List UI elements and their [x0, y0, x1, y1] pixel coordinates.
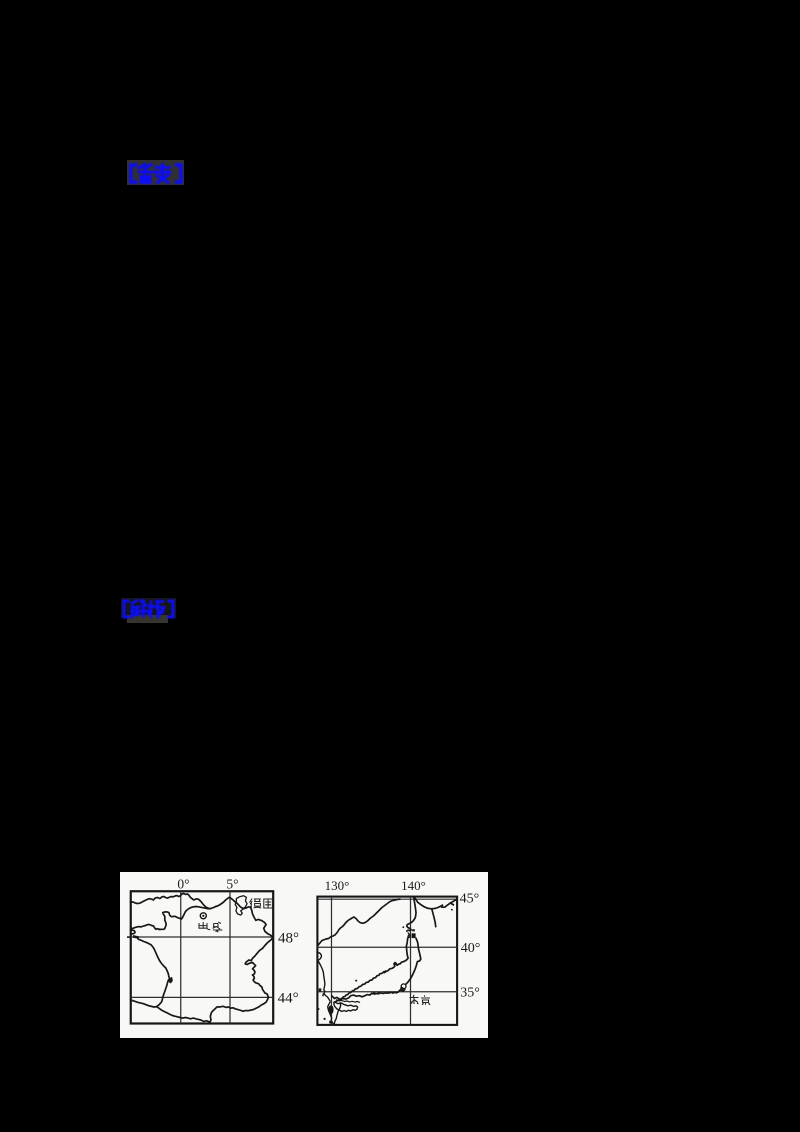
right labels	[325, 878, 481, 1000]
frame	[317, 897, 457, 1025]
analysis label 2 gray strip	[127, 615, 168, 623]
Hokkaido north/east arc	[414, 897, 457, 909]
Shikoku	[334, 1002, 358, 1012]
Tsugaru hooks	[408, 933, 410, 938]
Honshu west coast	[334, 936, 409, 1003]
Germany border blob	[235, 896, 247, 915]
Brest box	[131, 930, 135, 934]
svg-text:130°: 130°	[325, 878, 350, 893]
dongjing glyphs	[410, 995, 431, 1005]
svg-text:45°: 45°	[460, 892, 480, 907]
dark marks right panel	[318, 902, 455, 1023]
France north coast	[131, 894, 274, 1023]
grid lines	[131, 891, 273, 1023]
svg-text:35°: 35°	[460, 985, 480, 1000]
Tokyo circle	[401, 984, 406, 989]
Brittany-Normandy inner coast with Cotentin	[131, 907, 211, 930]
Seto inner sea line	[337, 1000, 360, 1003]
Hokkaido west coast + Oshima hook	[407, 897, 416, 931]
Honshu east coast	[406, 938, 421, 984]
analysis label 2 blue text	[121, 597, 177, 620]
west coast	[137, 938, 172, 1007]
analysis label 2 dark bg	[121, 598, 176, 618]
48 tick outside left	[127, 936, 131, 938]
svg-text:40°: 40°	[461, 941, 481, 956]
bali glyphs	[199, 922, 222, 932]
svg-text:5°: 5°	[226, 877, 238, 892]
left labels	[177, 877, 299, 1007]
Korea east+south coast	[317, 953, 321, 961]
svg-text:0°: 0°	[177, 877, 189, 892]
Hokkaido SE coast	[432, 909, 436, 927]
Tokyo bay + south coast	[332, 989, 405, 1000]
svg-text:140°: 140°	[401, 878, 426, 893]
Kyushu	[334, 1003, 341, 1025]
continental coast	[318, 899, 400, 945]
svg-text:44°: 44°	[278, 990, 299, 1006]
45 parallel double line	[317, 898, 457, 900]
deguo glyphs	[250, 899, 273, 910]
map figure white box	[120, 872, 488, 1038]
answer label 1 box	[127, 160, 184, 185]
answer label 1 blue text	[127, 160, 187, 187]
grid lines	[317, 897, 457, 1025]
dark marks left panel	[133, 935, 140, 939]
Paris circle	[200, 913, 206, 919]
frame	[131, 891, 273, 1023]
svg-text:48°: 48°	[278, 931, 299, 947]
